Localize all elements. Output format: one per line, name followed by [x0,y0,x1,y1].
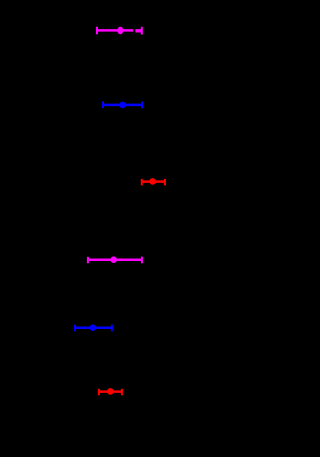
error bar 4 horizontal line [88,259,142,262]
error bar 2 left cap [102,101,104,108]
error bar 4 left cap [87,257,89,264]
data point 3: red error bar, top panel [142,178,165,185]
error bar 4 right cap [141,257,143,264]
marker 1 (filled circle) [117,27,123,35]
error bar 5 left cap [74,325,76,332]
error bar 2 horizontal line [103,104,142,107]
error bar 1 horizontal line [97,29,133,32]
data point 6: red error bar, bottom panel [99,388,122,395]
error bar 1 left cap [96,27,98,35]
marker 6 (filled circle) [107,388,114,395]
data point 1: magenta error bar, top panel [97,27,142,35]
error bar 5 right cap [111,325,113,332]
error bar 6 right cap [121,389,123,396]
marker 5 (filled circle) [90,324,97,331]
error bar 1 dash segment near right cap [135,29,141,32]
error bar 5 horizontal line [75,327,112,330]
data point 5: blue error bar, bottom panel [75,324,112,331]
marker 4 (filled circle) [110,256,117,263]
marker 2 (filled circle) [119,102,126,109]
error bar 3 left cap [141,179,143,186]
error bar 6 horizontal line [99,390,122,393]
data point 2: blue error bar, top panel [103,101,142,108]
error bar 3 right cap [164,179,166,186]
error bar 1 right cap [141,27,143,35]
marker 3 (filled circle) [149,178,156,185]
error bar 6 left cap [98,389,100,396]
error bar 2 right cap [141,102,143,109]
data point 4: magenta error bar, bottom panel [88,256,142,263]
error bar 3 horizontal line [142,180,165,183]
